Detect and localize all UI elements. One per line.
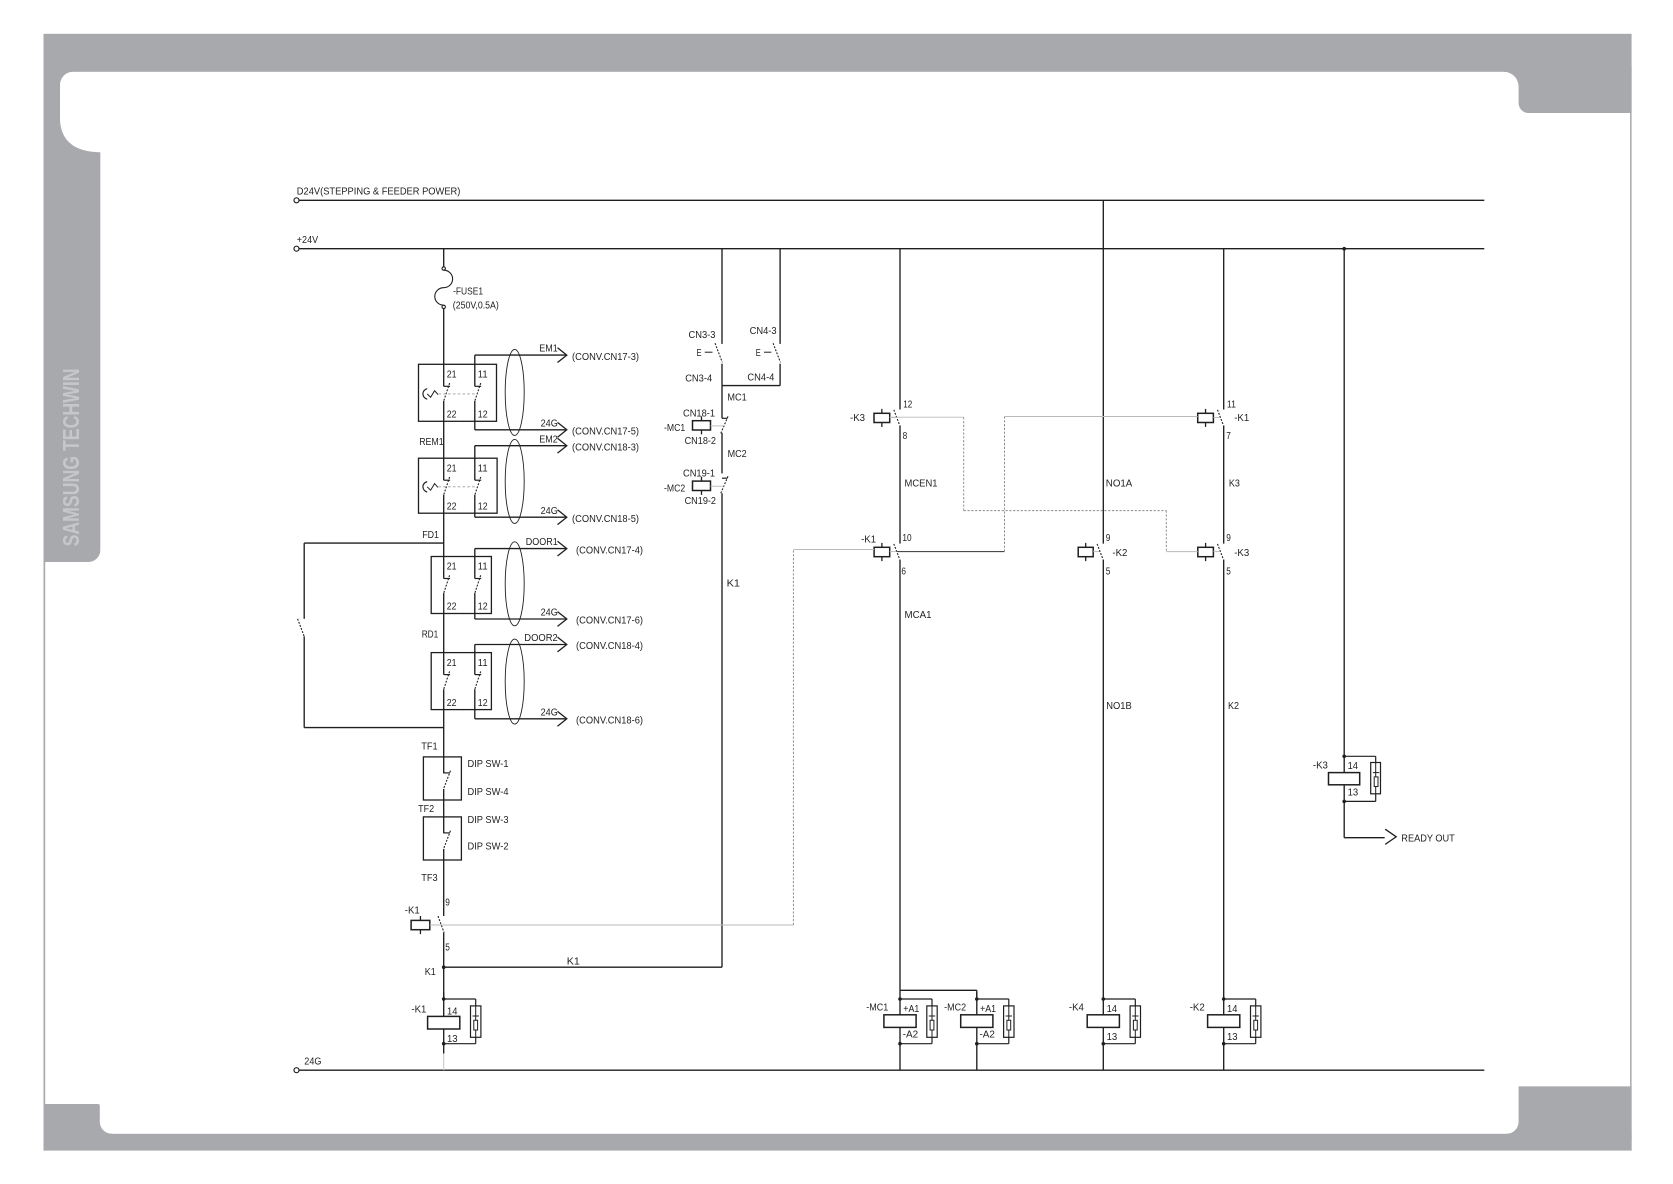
node +24V READY column bbox=[1342, 247, 1346, 251]
arrowhead 24G bbox=[558, 422, 567, 437]
wire bbox=[1102, 992, 1104, 1015]
contact box -MC1 bbox=[693, 421, 711, 430]
svg-text:MC1: MC1 bbox=[727, 393, 747, 404]
svg-text:11: 11 bbox=[478, 370, 488, 381]
svg-text:-K1: -K1 bbox=[1234, 413, 1249, 424]
svg-text:10: 10 bbox=[902, 533, 912, 544]
contact stub bbox=[443, 817, 445, 833]
svg-text:-K4: -K4 bbox=[1069, 1002, 1084, 1013]
indicator module bbox=[1004, 1006, 1014, 1037]
wire +24V to CN4-3 bbox=[779, 249, 781, 344]
junction node bbox=[898, 1042, 902, 1046]
contact pin 12 stub bbox=[474, 593, 476, 619]
relay block outline bbox=[431, 557, 491, 614]
relay block outline bbox=[431, 653, 491, 710]
svg-text:RD1: RD1 bbox=[422, 630, 439, 641]
svg-text:-MC1: -MC1 bbox=[866, 1002, 888, 1013]
svg-text:(CONV.CN17-6): (CONV.CN17-6) bbox=[576, 616, 643, 627]
svg-text:9: 9 bbox=[1226, 533, 1231, 544]
contact pin 11 stub bbox=[474, 549, 476, 579]
coil box bbox=[1208, 1015, 1240, 1028]
indicator branch wire bbox=[1375, 794, 1377, 802]
arrowhead READY OUT bbox=[1385, 829, 1396, 844]
contact blade -K1 bbox=[894, 544, 900, 559]
contact blade bbox=[444, 771, 451, 789]
wire bbox=[1223, 560, 1225, 993]
svg-text:11: 11 bbox=[478, 463, 488, 474]
wire bbox=[443, 1029, 445, 1044]
wire CN3 lower bbox=[721, 364, 723, 386]
svg-text:-K3: -K3 bbox=[1313, 760, 1328, 771]
svg-text:24G: 24G bbox=[541, 418, 558, 429]
contact box -MC2 bbox=[693, 481, 711, 490]
fuse FUSE1 bbox=[442, 267, 445, 270]
wire to 24G rail bbox=[899, 1044, 901, 1071]
contact seat bbox=[475, 578, 481, 580]
link -K2 box to blade bbox=[1093, 551, 1100, 553]
svg-text:6: 6 bbox=[901, 566, 906, 577]
wire to 24G rail bbox=[1223, 1044, 1225, 1071]
svg-text:READY OUT: READY OUT bbox=[1401, 834, 1455, 845]
wire +24V to CN3-3 bbox=[721, 249, 723, 344]
junction node bbox=[898, 997, 902, 1001]
relay block outline bbox=[419, 364, 497, 421]
arrowhead DOOR1 bbox=[558, 541, 567, 556]
indicator branch wire bbox=[1224, 998, 1256, 1000]
svg-text:D24V(STEPPING & FEEDER POWER): D24V(STEPPING & FEEDER POWER) bbox=[297, 186, 461, 197]
svg-text:8: 8 bbox=[903, 431, 908, 442]
node K1 bbox=[442, 965, 446, 969]
svg-text:5: 5 bbox=[1226, 566, 1231, 577]
contact seat bbox=[444, 578, 450, 580]
contact pin 11 stub bbox=[474, 446, 476, 481]
wire to 24G rail bbox=[1102, 1044, 1104, 1071]
svg-text:REM1: REM1 bbox=[419, 437, 444, 448]
link MCA1 -K1 contact to K3 -K1 contact bbox=[897, 551, 1005, 553]
svg-text:CN19-1: CN19-1 bbox=[683, 468, 715, 479]
contact blade -K3 bbox=[1218, 544, 1224, 559]
svg-text:24G: 24G bbox=[541, 506, 558, 517]
svg-text:5: 5 bbox=[1106, 566, 1111, 577]
svg-text:TF3: TF3 bbox=[421, 873, 438, 884]
contact blade bbox=[444, 575, 450, 593]
link -K3 box to blade bbox=[1213, 551, 1220, 553]
rail 24G bbox=[299, 1069, 1484, 1071]
wire bbox=[443, 513, 445, 556]
contact blade -K1 bbox=[438, 916, 444, 933]
wire bbox=[1223, 425, 1225, 543]
contact box -K3 bbox=[1198, 547, 1214, 556]
svg-text:13: 13 bbox=[1227, 1032, 1238, 1043]
wire D24V down column NO1A bbox=[1102, 200, 1104, 543]
contact blade MC2 bbox=[722, 477, 727, 479]
svg-text:-MC2: -MC2 bbox=[944, 1002, 966, 1013]
wire bbox=[899, 992, 901, 1015]
svg-text:24G: 24G bbox=[304, 1057, 321, 1068]
contact stub bbox=[443, 757, 445, 773]
svg-text:DIP SW-4: DIP SW-4 bbox=[468, 787, 509, 798]
wire 24G output bbox=[475, 429, 566, 431]
wire DOOR2 output bbox=[475, 644, 566, 646]
svg-text:(CONV.CN17-5): (CONV.CN17-5) bbox=[572, 427, 639, 438]
wire bbox=[721, 386, 723, 419]
svg-text:FD1: FD1 bbox=[422, 530, 439, 541]
contact seat bbox=[475, 674, 481, 676]
svg-text:22: 22 bbox=[447, 410, 457, 421]
contact blade -K2 bbox=[1097, 544, 1103, 559]
wire bbox=[443, 967, 445, 999]
contact pin 21 stub bbox=[443, 653, 445, 675]
link -K1 TF3 contact to MCA1 -K1 contact bbox=[430, 924, 794, 926]
contact blade bbox=[475, 575, 481, 593]
contact box -K1 bbox=[411, 920, 430, 929]
wire bbox=[721, 433, 723, 474]
contact pin 12 stub bbox=[474, 689, 476, 719]
svg-text:(CONV.CN17-3): (CONV.CN17-3) bbox=[572, 352, 639, 363]
wire bbox=[1343, 785, 1345, 802]
actuator symbol bbox=[423, 389, 427, 399]
contact pin 21 stub bbox=[443, 364, 445, 386]
svg-text:TF1: TF1 bbox=[421, 741, 438, 752]
cable ellipse bbox=[505, 349, 524, 435]
svg-text:EM2: EM2 bbox=[539, 434, 558, 445]
svg-text:E: E bbox=[756, 348, 761, 359]
svg-text:11: 11 bbox=[478, 562, 488, 573]
svg-text:12: 12 bbox=[478, 410, 488, 421]
svg-text:CN4-4: CN4-4 bbox=[747, 373, 774, 384]
DIP switch box TF1 bbox=[423, 757, 461, 800]
junction node bbox=[975, 997, 979, 1001]
link -K1 box to blade bbox=[1213, 417, 1220, 419]
terminal D24V bbox=[294, 198, 299, 203]
wire fuse to REM1 block bbox=[443, 309, 445, 365]
svg-text:CN3-4: CN3-4 bbox=[685, 374, 712, 385]
svg-text:MCA1: MCA1 bbox=[905, 610, 932, 621]
indicator branch wire bbox=[1103, 998, 1135, 1000]
indicator branch wire bbox=[1255, 1037, 1257, 1043]
svg-text:NO1A: NO1A bbox=[1106, 478, 1133, 489]
svg-text:9: 9 bbox=[1106, 533, 1111, 544]
indicator module bbox=[1371, 763, 1381, 794]
contact seat bbox=[475, 479, 481, 481]
contact pin 21 stub bbox=[443, 458, 445, 480]
svg-text:+A1: +A1 bbox=[980, 1004, 996, 1015]
indicator branch wire bbox=[1344, 755, 1376, 757]
indicator branch wire bbox=[1008, 1037, 1010, 1043]
svg-text:+A1: +A1 bbox=[903, 1004, 919, 1015]
DIP switch box TF2 bbox=[423, 817, 461, 860]
contact blade MC1 bbox=[722, 417, 727, 419]
wire branch to -MC2 bbox=[900, 989, 977, 991]
contact blade bbox=[475, 383, 481, 401]
contact box -K1 bbox=[874, 547, 890, 556]
wire READY OUT bbox=[1343, 801, 1345, 837]
contact pin 22 stub bbox=[443, 495, 445, 513]
wire +24V down READY column bbox=[1343, 249, 1345, 757]
wire to 24G rail bbox=[443, 1044, 445, 1054]
junction node bbox=[1102, 1042, 1106, 1046]
wire bbox=[976, 992, 978, 1015]
contact blade bbox=[444, 383, 450, 401]
wire +24V to fuse bbox=[443, 249, 445, 267]
relay block outline bbox=[419, 458, 498, 513]
node bbox=[1342, 755, 1346, 759]
link E dash bbox=[705, 351, 713, 353]
wire DOOR1 output bbox=[475, 548, 566, 550]
contact pin 11 stub bbox=[474, 645, 476, 675]
svg-text:12: 12 bbox=[478, 501, 488, 512]
wire bbox=[976, 1027, 978, 1043]
svg-text:14: 14 bbox=[1227, 1004, 1238, 1015]
svg-text:(CONV.CN18-6): (CONV.CN18-6) bbox=[576, 716, 643, 727]
contact pin 12 stub bbox=[474, 401, 476, 430]
rail D24V bbox=[299, 199, 1484, 201]
svg-text:K3: K3 bbox=[1229, 478, 1240, 489]
contact blade bbox=[444, 671, 450, 689]
arrowhead EM2 bbox=[558, 438, 567, 453]
contact blade bbox=[444, 831, 451, 849]
svg-text:-K1: -K1 bbox=[411, 1004, 426, 1015]
svg-text:E: E bbox=[697, 348, 702, 359]
svg-text:CN19-2: CN19-2 bbox=[685, 496, 717, 507]
svg-text:CN4-3: CN4-3 bbox=[750, 326, 777, 337]
indicator branch wire bbox=[931, 1037, 933, 1043]
link -K1 box to blade bbox=[890, 551, 897, 553]
contact blade -K1 bbox=[1218, 410, 1224, 425]
arrowhead EM1 bbox=[558, 348, 567, 363]
svg-text:24G: 24G bbox=[541, 707, 558, 718]
svg-text:21: 21 bbox=[447, 658, 457, 669]
indicator module bbox=[927, 1006, 937, 1037]
wire bbox=[1223, 992, 1225, 1015]
svg-text:K2: K2 bbox=[1228, 701, 1239, 712]
indicator branch wire bbox=[900, 998, 932, 1000]
svg-text:CN3-3: CN3-3 bbox=[689, 330, 716, 341]
svg-text:TF2: TF2 bbox=[418, 804, 434, 815]
svg-text:11: 11 bbox=[478, 658, 488, 669]
wire CN4 to CN3 junction bbox=[722, 385, 780, 387]
indicator module bbox=[1130, 1006, 1140, 1037]
indicator module bbox=[1251, 1006, 1261, 1037]
svg-text:MC2: MC2 bbox=[728, 449, 747, 460]
svg-text:-MC1: -MC1 bbox=[664, 423, 686, 434]
svg-text:-K1: -K1 bbox=[405, 906, 420, 917]
svg-text:14: 14 bbox=[1107, 1004, 1118, 1015]
contact stub bbox=[443, 849, 445, 916]
contact box -K2 bbox=[1078, 547, 1093, 556]
junction node bbox=[1222, 997, 1226, 1001]
link -MC2 to blade bbox=[711, 485, 724, 487]
wire bbox=[1223, 1027, 1225, 1043]
indicator branch wire bbox=[1134, 1037, 1136, 1043]
wire CN4 lower bbox=[779, 364, 781, 386]
mechanical link dashes bbox=[439, 393, 477, 395]
arrowhead 24G bbox=[558, 510, 567, 525]
junction node bbox=[975, 1042, 979, 1046]
relay coil -K3 bbox=[1343, 756, 1345, 772]
contact pin 12 stub bbox=[474, 495, 476, 517]
node bbox=[1342, 800, 1346, 804]
svg-text:-A2: -A2 bbox=[980, 1029, 996, 1040]
wire bbox=[1102, 560, 1104, 993]
arrowhead DOOR2 bbox=[558, 637, 567, 652]
contact blade CN3 bbox=[715, 343, 722, 362]
svg-text:22: 22 bbox=[447, 602, 457, 613]
svg-text:24G: 24G bbox=[541, 608, 558, 619]
wire 24G output bbox=[475, 618, 566, 620]
junction node bbox=[442, 1042, 446, 1046]
arrowhead 24G bbox=[558, 612, 567, 627]
contact seat bbox=[444, 479, 450, 481]
wire 24G output bbox=[475, 516, 566, 518]
wire +24V down column MCEN1 bbox=[899, 249, 901, 410]
wire bbox=[899, 1027, 901, 1043]
contact blade bbox=[475, 477, 481, 495]
wire bbox=[443, 614, 445, 653]
svg-text:22: 22 bbox=[447, 501, 457, 512]
coil box bbox=[1087, 1015, 1119, 1028]
link -MC1 to blade bbox=[711, 425, 724, 427]
wire bypass lower bbox=[303, 636, 305, 727]
svg-text:13: 13 bbox=[1348, 787, 1359, 798]
actuator symbol bbox=[423, 482, 427, 492]
indicator branch wire bbox=[977, 998, 1009, 1000]
svg-text:5: 5 bbox=[445, 942, 450, 953]
coil box bbox=[961, 1015, 993, 1028]
contact seat bbox=[444, 674, 450, 676]
coil box bbox=[428, 1016, 460, 1029]
terminal +24V bbox=[294, 246, 299, 251]
contact box -K1 bbox=[1198, 413, 1214, 422]
svg-text:(CONV.CN18-3): (CONV.CN18-3) bbox=[572, 442, 639, 453]
svg-text:14: 14 bbox=[1348, 761, 1359, 772]
contact pin 11 stub bbox=[474, 355, 476, 386]
svg-text:12: 12 bbox=[903, 399, 912, 410]
svg-text:DOOR2: DOOR2 bbox=[524, 633, 558, 644]
svg-text:K1: K1 bbox=[425, 967, 436, 978]
contact pin 21 stub bbox=[443, 557, 445, 579]
svg-text:K1: K1 bbox=[727, 579, 741, 590]
contact blade bbox=[475, 671, 481, 689]
svg-text:13: 13 bbox=[1107, 1032, 1118, 1043]
indicator module bbox=[471, 1006, 481, 1037]
svg-text:NO1B: NO1B bbox=[1106, 701, 1132, 712]
cable ellipse bbox=[505, 542, 524, 626]
wire bbox=[443, 933, 445, 968]
wire bbox=[899, 425, 901, 543]
wire K1 self hold bbox=[444, 966, 722, 968]
link E dash bbox=[764, 351, 771, 353]
arrowhead 24G bbox=[558, 711, 567, 726]
svg-text:DOOR1: DOOR1 bbox=[526, 537, 558, 548]
svg-text:DIP SW-3: DIP SW-3 bbox=[468, 815, 509, 826]
junction node bbox=[1102, 997, 1106, 1001]
svg-text:+24V: +24V bbox=[297, 235, 319, 246]
svg-text:(CONV.CN18-4): (CONV.CN18-4) bbox=[576, 641, 643, 652]
wire 24G output bbox=[475, 718, 566, 720]
svg-text:CN18-2: CN18-2 bbox=[685, 436, 717, 447]
svg-text:(250V,0.5A): (250V,0.5A) bbox=[453, 300, 499, 311]
contact blade bbox=[444, 477, 450, 495]
svg-text:14: 14 bbox=[447, 1006, 458, 1017]
indicator branch wire bbox=[475, 1037, 477, 1043]
svg-text:DIP SW-1: DIP SW-1 bbox=[468, 759, 509, 770]
coil box bbox=[884, 1015, 916, 1028]
svg-text:CN18-1: CN18-1 bbox=[683, 408, 715, 419]
contact stub bbox=[443, 789, 445, 817]
wire bbox=[443, 710, 445, 757]
contact blade -K3 bbox=[894, 410, 900, 425]
link -K3 box to blade bbox=[890, 417, 897, 419]
svg-text:12: 12 bbox=[478, 602, 488, 613]
svg-text:21: 21 bbox=[447, 463, 457, 474]
svg-text:13: 13 bbox=[447, 1034, 458, 1045]
svg-text:-A2: -A2 bbox=[903, 1029, 919, 1040]
svg-text:7: 7 bbox=[1226, 431, 1231, 442]
svg-text:11: 11 bbox=[1227, 399, 1236, 410]
contact pin 22 stub bbox=[443, 401, 445, 421]
svg-text:SAMSUNG TECHWIN: SAMSUNG TECHWIN bbox=[58, 368, 84, 546]
svg-text:DIP SW-2: DIP SW-2 bbox=[468, 842, 509, 853]
terminal 24G bbox=[294, 1068, 299, 1073]
svg-text:-K2: -K2 bbox=[1112, 548, 1127, 559]
contact pin 22 stub bbox=[443, 689, 445, 709]
svg-text:9: 9 bbox=[445, 898, 450, 909]
cable ellipse bbox=[505, 439, 524, 523]
wire to 24G rail bbox=[976, 1044, 978, 1071]
wire bbox=[443, 421, 445, 458]
wire bypass upper bbox=[304, 542, 444, 544]
contact pin 22 stub bbox=[443, 593, 445, 613]
mechanical link dashes bbox=[439, 486, 477, 488]
svg-text:21: 21 bbox=[447, 370, 457, 381]
wire bbox=[1102, 1027, 1104, 1043]
contact seat bbox=[444, 385, 450, 387]
contact seat bbox=[475, 385, 481, 387]
svg-text:21: 21 bbox=[447, 562, 457, 573]
svg-text:(CONV.CN17-4): (CONV.CN17-4) bbox=[576, 545, 643, 556]
svg-text:-FUSE1: -FUSE1 bbox=[453, 287, 483, 298]
contact box -K3 bbox=[874, 413, 890, 422]
indicator branch wire bbox=[444, 998, 476, 1000]
junction node bbox=[1222, 1042, 1226, 1046]
switch blade bypass bbox=[298, 619, 305, 637]
cable ellipse bbox=[505, 639, 524, 724]
svg-text:(CONV.CN18-5): (CONV.CN18-5) bbox=[572, 514, 639, 525]
svg-text:-K3: -K3 bbox=[850, 413, 865, 424]
svg-text:-K1: -K1 bbox=[861, 535, 876, 546]
svg-text:EM1: EM1 bbox=[539, 344, 558, 355]
wire bbox=[899, 560, 901, 993]
wire EM1 output bbox=[475, 354, 566, 356]
link -K3 MCEN1 contact to K3 -K3 contact bbox=[890, 416, 964, 418]
svg-text:K1: K1 bbox=[567, 957, 580, 968]
junction node bbox=[442, 997, 446, 1001]
rail +24V bbox=[299, 248, 1484, 250]
svg-text:-K3: -K3 bbox=[1234, 548, 1249, 559]
wire K1 column bbox=[721, 493, 723, 967]
wire EM2 output bbox=[475, 445, 566, 447]
svg-text:22: 22 bbox=[447, 698, 457, 709]
svg-text:12: 12 bbox=[478, 698, 488, 709]
wire bbox=[443, 992, 445, 1016]
svg-text:-K2: -K2 bbox=[1190, 1002, 1205, 1013]
contact blade CN4 bbox=[773, 343, 780, 362]
svg-text:-MC2: -MC2 bbox=[664, 484, 686, 495]
svg-text:MCEN1: MCEN1 bbox=[905, 478, 938, 489]
wire +24V down column K3 bbox=[1223, 249, 1225, 410]
